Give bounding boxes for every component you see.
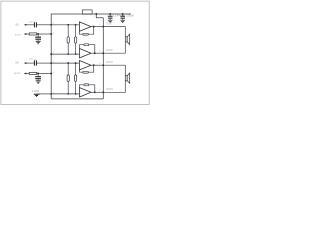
supply rail wire (top of IC box) [51, 14, 131, 99]
svg-text:1: 1 [99, 24, 100, 26]
ground [120, 20, 125, 22]
wire pair2 lower (S-GND row inside) [51, 93, 79, 95]
resistor Rf1 feedback [79, 31, 82, 34]
node OUT4 pin [102, 91, 104, 93]
resistor Rf3 feedback [79, 70, 82, 72]
node feedback tap 1 [93, 26, 95, 28]
capacitor C2 2200uF [122, 14, 124, 16]
wire OUT4 [91, 91, 103, 93]
speaker LS1 [125, 37, 127, 42]
resistor R2 [29, 72, 37, 74]
wire speaker2 bottom [103, 81, 125, 93]
node jog [95, 13, 97, 15]
svg-text:IN2: IN2 [15, 63, 19, 65]
node divider A1 [67, 24, 69, 26]
jog rail to right edge [96, 14, 103, 18]
resistor R1 [29, 33, 37, 35]
border frame [1, 1, 149, 105]
svg-text:OUT1: OUT1 [106, 24, 113, 26]
wire OUT3 [91, 64, 103, 66]
node OUT2 pin [102, 52, 104, 54]
wire speaker1 top [103, 27, 125, 37]
wire IN2 row inside [51, 62, 79, 64]
wire [36, 33, 51, 35]
svg-text:7: 7 [99, 90, 100, 92]
svg-text:OUT3: OUT3 [106, 62, 113, 64]
svg-text:3: 3 [99, 51, 100, 53]
node pin MUTE [50, 73, 52, 75]
resistor Ra2 vertical [67, 63, 69, 75]
svg-text:+: + [34, 58, 36, 61]
node Rb1 bottom [75, 53, 77, 55]
svg-text:8: 8 [53, 72, 54, 74]
resistor Rb1 vertical [75, 25, 77, 37]
capacitor C6 [37, 74, 39, 77]
node Ra1 bottom [67, 53, 69, 55]
svg-text:ST-BY: ST-BY [15, 34, 22, 36]
node divider B1 [75, 24, 77, 26]
svg-text:4: 4 [53, 32, 54, 34]
node feedback tap 4 [94, 91, 96, 93]
node rail-C1 [109, 13, 111, 15]
node pin IN1 [50, 24, 52, 26]
wire [37, 93, 52, 95]
ground [36, 41, 41, 44]
wire speaker1 bottom [103, 42, 125, 53]
node Ra2 bottom [67, 93, 69, 95]
wire IN1 row inside [51, 24, 79, 26]
svg-text:2: 2 [94, 16, 95, 18]
svg-text:OUT2: OUT2 [106, 50, 113, 52]
IC right edge wire [102, 18, 104, 99]
svg-text:5: 5 [99, 63, 100, 65]
node divider A2 [67, 62, 69, 64]
capacitor C3 0.47uF [34, 22, 36, 27]
node OUT1 pin [102, 26, 104, 28]
op-amp U1A [79, 22, 91, 31]
node OUT3 pin [102, 64, 104, 66]
ground [36, 81, 41, 84]
wire OUT1 [91, 26, 103, 28]
resistor Rf2 feedback above [80, 45, 85, 49]
node pin S-GND [50, 93, 52, 95]
node rail-C2 [122, 13, 124, 15]
wire [36, 73, 51, 75]
wire [37, 24, 51, 26]
svg-text:2200uF: 2200uF [126, 16, 134, 18]
wire [37, 62, 51, 64]
node Rb2 bottom [75, 93, 77, 95]
capacitor C1 0.1uF [109, 14, 111, 16]
resistor Ra1 vertical [67, 25, 69, 37]
fuse F1 on rail [82, 10, 92, 14]
capacitor C5 0.47uF [34, 60, 36, 65]
resistor Rb2 vertical [75, 63, 77, 75]
wire speaker2 top [103, 65, 125, 76]
wire OUT2 [91, 52, 103, 54]
op-amp U1C [79, 61, 91, 70]
node feedback tap 3 [93, 64, 95, 66]
svg-text:MUTE: MUTE [14, 73, 21, 75]
speaker LS2 [125, 76, 127, 81]
resistor Rf4 feedback above [80, 85, 85, 88]
svg-text:3: 3 [53, 52, 54, 54]
node pin IN2 [50, 62, 52, 64]
wire pair1 lower [51, 53, 79, 55]
node ST-BY junction [37, 33, 39, 35]
node feedback tap 2 [94, 52, 96, 54]
capacitor C4 [37, 34, 39, 37]
node divider B2 [75, 62, 77, 64]
svg-text:OUT4: OUT4 [106, 89, 113, 91]
ground S-GND [36, 93, 38, 95]
ground [108, 20, 113, 22]
node pin pair1 lower [50, 53, 52, 55]
svg-text:IN1: IN1 [15, 25, 19, 27]
IC bottom edge wire [51, 98, 103, 100]
svg-text:S-GND: S-GND [32, 91, 40, 93]
node MUTE junction [37, 73, 39, 75]
svg-text:+: + [119, 13, 121, 17]
node pin ST-BY [50, 33, 52, 35]
